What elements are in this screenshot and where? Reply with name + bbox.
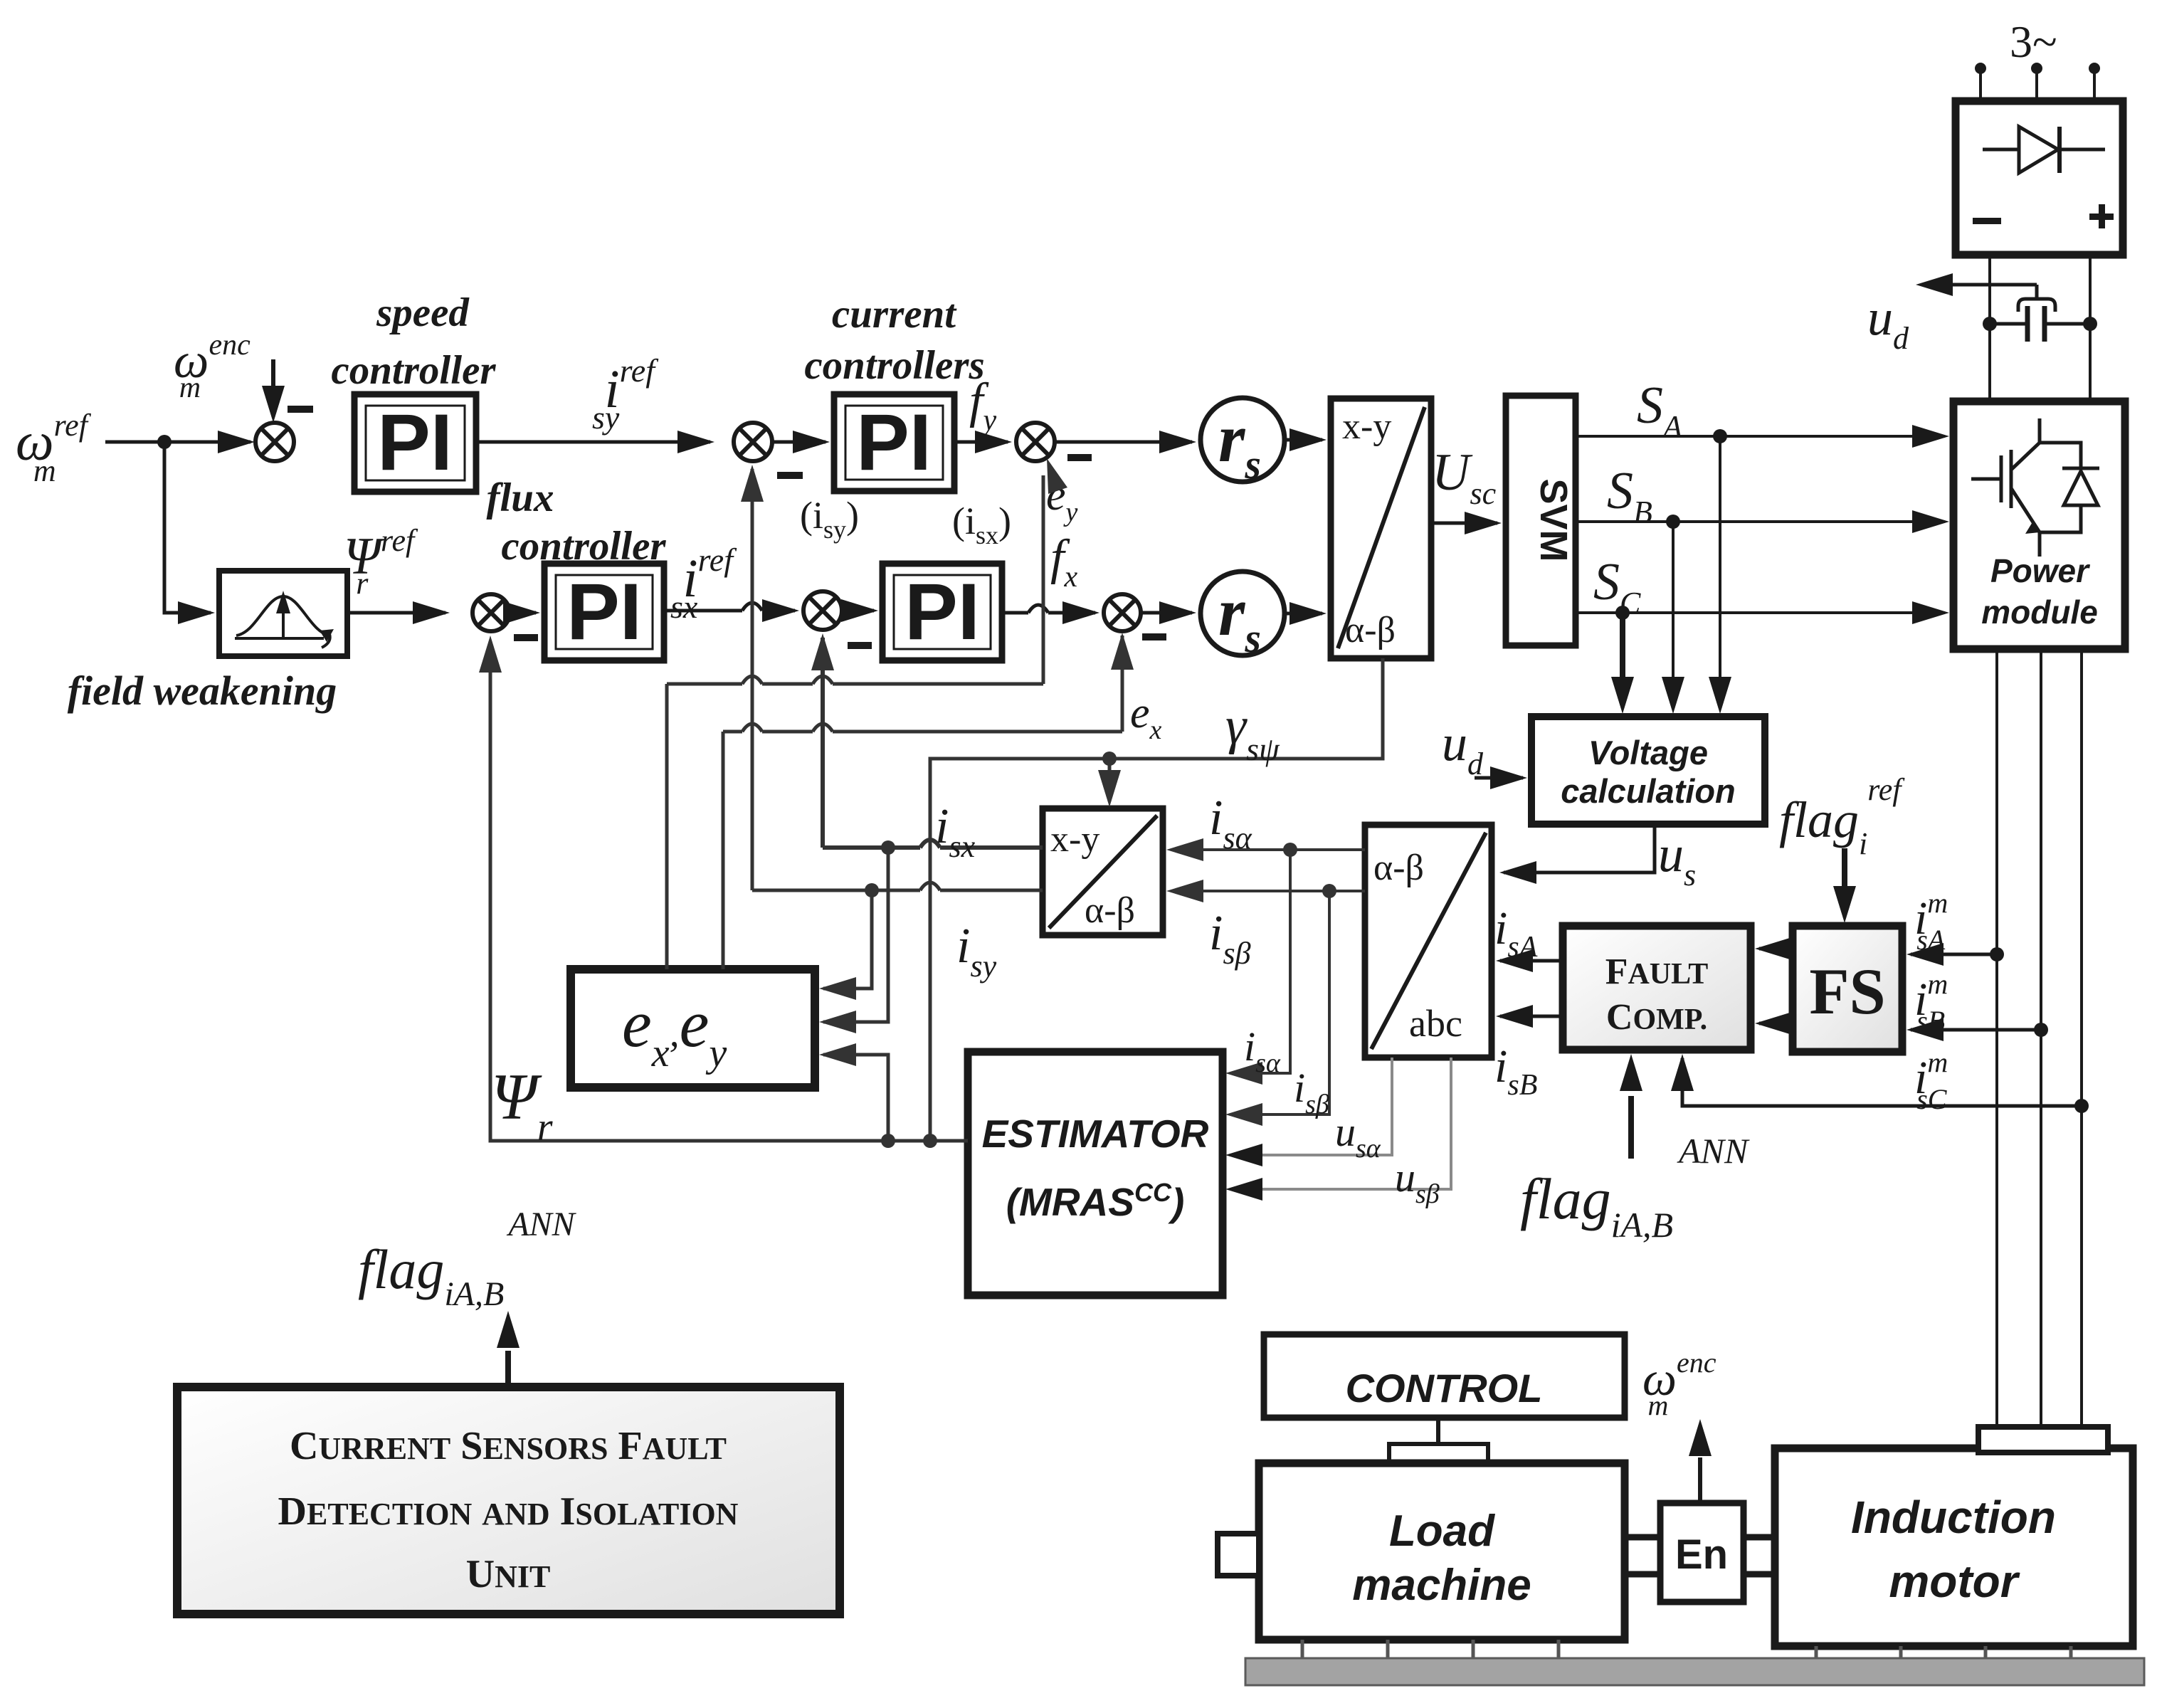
svg-text:ESTIMATOR: ESTIMATOR: [982, 1112, 1209, 1156]
transistor IGBT with diode inside power module: [1971, 418, 2099, 557]
svg-text:module: module: [1981, 594, 2098, 631]
wire summer2 to PI2: [503, 601, 540, 624]
wire branch omega to field weakening: [164, 442, 215, 624]
wire S_B: [1576, 510, 1949, 533]
wire summer5 to PI4: [841, 599, 878, 622]
block PI4 current x controller: [882, 564, 1002, 660]
svg-text:speed: speed: [376, 290, 470, 335]
summer current-y (summer3): [734, 423, 772, 461]
label minus at summer3: [777, 472, 803, 479]
wire PI1 to summer3: [476, 431, 714, 453]
wire phase A: [1990, 649, 2004, 1427]
block FS: [1793, 926, 1902, 1052]
gain rs2 circle: [1201, 571, 1285, 661]
block control pedestal: [1389, 1444, 1488, 1463]
wire omega ref input: [105, 431, 255, 453]
wire u_salpha to estimator: [1225, 1058, 1392, 1166]
wire i_sx feedback to summer5: [811, 633, 1043, 855]
svg-text:PI: PI: [377, 398, 453, 487]
wire FS to fault comp upper: [1755, 937, 1793, 960]
block load machine shaft stub: [1218, 1534, 1259, 1576]
svg-text:calculation: calculation: [1561, 772, 1736, 810]
wire i_sC_m measured to fault comp: [1671, 1054, 2082, 1106]
node supply terminal dots and stubs: [1975, 63, 2100, 101]
svg-text:CONTROL: CONTROL: [1346, 1366, 1543, 1411]
svg-text:α-β: α-β: [1373, 848, 1424, 888]
svg-text:COMP.: COMP.: [1606, 997, 1707, 1038]
svg-text:current: current: [832, 292, 957, 337]
wire rs1 to converter1: [1285, 428, 1327, 451]
svg-text:controllers: controllers: [804, 343, 984, 388]
wire gamma_spsi from converter1 bottom to converter2 top: [930, 658, 1383, 1141]
svg-text:motor: motor: [1889, 1556, 2020, 1607]
block CONTROL: [1264, 1334, 1625, 1418]
svg-text:Load: Load: [1389, 1507, 1495, 1556]
wire field weakening to summer2: [347, 601, 450, 624]
wire control stem: [1436, 1418, 1440, 1444]
wire flag_i_ref into FS: [1833, 848, 1856, 923]
wire shaft encoder to motor: [1744, 1537, 1775, 1574]
wire S_A drop to voltage calculation: [1709, 436, 1731, 714]
wire i_sA_m measured: [1907, 943, 1997, 966]
wire summer3 to PI3: [772, 431, 830, 453]
wire summer6 to rs2: [1141, 601, 1196, 624]
wire i_sy feedback to summer3: [741, 465, 1043, 897]
svg-text:field weakening: field weakening: [68, 668, 337, 714]
wire PI4 to summer6 with hop: [1002, 601, 1099, 624]
wire u_sbeta to estimator: [1225, 1058, 1451, 1201]
label minus at summer4: [1067, 454, 1092, 461]
wire phase C: [2074, 649, 2089, 1427]
wire S_B drop to voltage calculation: [1662, 522, 1684, 714]
wire psi_r output line from estimator: [479, 636, 968, 1148]
block voltage calculation: [1531, 717, 1765, 824]
wire shaft load machine to encoder: [1625, 1537, 1660, 1574]
svg-text:flux: flux: [486, 475, 554, 520]
svg-text:Power: Power: [1990, 552, 2090, 589]
wire u_d into voltage calculation: [1475, 766, 1527, 789]
block ex ey calculator: [571, 969, 815, 1087]
block PI3 current y controller: [834, 394, 954, 491]
summer ey (summer4): [1016, 423, 1055, 461]
wire i_sB_m measured: [1907, 1018, 2041, 1041]
wire psi_r branch into ex ey input3: [819, 1043, 888, 1141]
wire i_sy branch into ex ey input1: [819, 890, 872, 1000]
svg-text:FAULT: FAULT: [1605, 951, 1709, 992]
svg-text:UNIT: UNIT: [466, 1552, 551, 1596]
wire dc bus left: [1988, 255, 1991, 401]
svg-text:SVM: SVM: [1532, 478, 1575, 562]
capacitor dc link: [1983, 306, 2097, 342]
svg-text:Voltage: Voltage: [1588, 734, 1708, 771]
wire i_sx branch into ex ey input2: [819, 848, 888, 1033]
block load machine: [1259, 1463, 1625, 1640]
svg-text:FS: FS: [1809, 955, 1885, 1028]
wire flag_iAB into fault comp bottom: [1620, 1054, 1642, 1159]
wire converter1 to SVM: [1431, 512, 1502, 534]
block converter abc to alpha-beta: [1365, 825, 1492, 1058]
summer ex (summer6): [1104, 594, 1141, 631]
wire e_y from block to summer4: [667, 458, 1067, 969]
block machine feet: [1302, 1640, 2071, 1658]
block estimator MRAS: [968, 1052, 1223, 1295]
svg-text:x-y: x-y: [1342, 406, 1391, 447]
block power module: [1953, 401, 2125, 649]
block converter1 x-y to alpha-beta: [1331, 399, 1431, 658]
block field weakening: [219, 571, 347, 656]
wire i_sbeta to converter2: [1166, 880, 1365, 902]
block converter2 x-y from alpha-beta: [1043, 808, 1163, 935]
block PI2 flux controller: [544, 564, 664, 660]
svg-text:PI: PI: [566, 567, 642, 656]
svg-text:x-y: x-y: [1050, 819, 1099, 860]
label minus at summer5: [848, 642, 872, 649]
svg-text:machine: machine: [1352, 1561, 1531, 1610]
svg-text:3~: 3~: [2010, 16, 2057, 67]
wire e_x from block to summer6: [723, 633, 1134, 969]
wire i_salpha drop to estimator: [1225, 850, 1290, 1085]
block fault compensation: [1563, 926, 1751, 1050]
wire i_salpha to converter2: [1166, 838, 1365, 861]
gain rs1 circle: [1201, 398, 1285, 487]
block rectifier: [1956, 101, 2123, 255]
svg-text:PI: PI: [856, 398, 932, 487]
wire fault comp to abc block i_sB: [1496, 1005, 1563, 1028]
summer flux (summer2): [473, 594, 510, 631]
wire summer4 to rs1: [1055, 431, 1196, 453]
label minus at summer2: [514, 634, 538, 641]
svg-text:abc: abc: [1409, 1002, 1462, 1045]
block motor terminal box: [1978, 1427, 2108, 1453]
svg-text:α-β: α-β: [1085, 890, 1135, 931]
wire dc bus right: [2089, 255, 2092, 401]
wire rs2 to converter1: [1285, 602, 1327, 625]
wire u_s from voltage calculation to ab-abc block: [1499, 824, 1655, 884]
block current sensors fault detection and isolation unit: [177, 1387, 840, 1614]
wire omega enc into summer1: [262, 359, 285, 423]
block induction motor: [1775, 1448, 2133, 1646]
svg-text:Induction: Induction: [1851, 1492, 2056, 1543]
svg-text:DETECTION AND ISOLATION: DETECTION AND ISOLATION: [278, 1490, 739, 1534]
block SVM: [1506, 396, 1576, 645]
wire flag arrow from CSFDI unit: [497, 1311, 520, 1387]
svg-text:controller: controller: [331, 348, 496, 393]
summer speed (summer1): [255, 423, 294, 461]
svg-text:PI: PI: [905, 567, 980, 656]
wire encoder speed arrow: [1689, 1419, 1712, 1503]
wire S_A: [1576, 425, 1949, 448]
wire PI3 to summer4: [954, 431, 1012, 453]
wire u_d measurement arrow: [1916, 273, 2055, 312]
wire fault comp to abc block i_sA: [1496, 949, 1563, 972]
wire phase B: [2034, 649, 2048, 1427]
svg-text:CURRENT SENSORS FAULT: CURRENT SENSORS FAULT: [290, 1424, 727, 1468]
wire S_C drop to voltage calculation: [1611, 613, 1634, 714]
label minus at summer6: [1142, 633, 1166, 640]
svg-text:En: En: [1675, 1532, 1728, 1578]
wire FS to fault comp lower: [1755, 1012, 1793, 1035]
ground base plate: [1245, 1658, 2144, 1685]
wire PI2 to summer5 with hop: [664, 599, 799, 622]
wire S_C: [1576, 601, 1949, 624]
wire i_sbeta drop to estimator: [1225, 891, 1329, 1126]
block PI1 speed controller: [354, 394, 476, 492]
svg-text:α-β: α-β: [1345, 610, 1396, 650]
block encoder En: [1660, 1503, 1744, 1602]
summer current-x (summer5): [803, 591, 842, 630]
label minus at summer1: [288, 406, 313, 413]
